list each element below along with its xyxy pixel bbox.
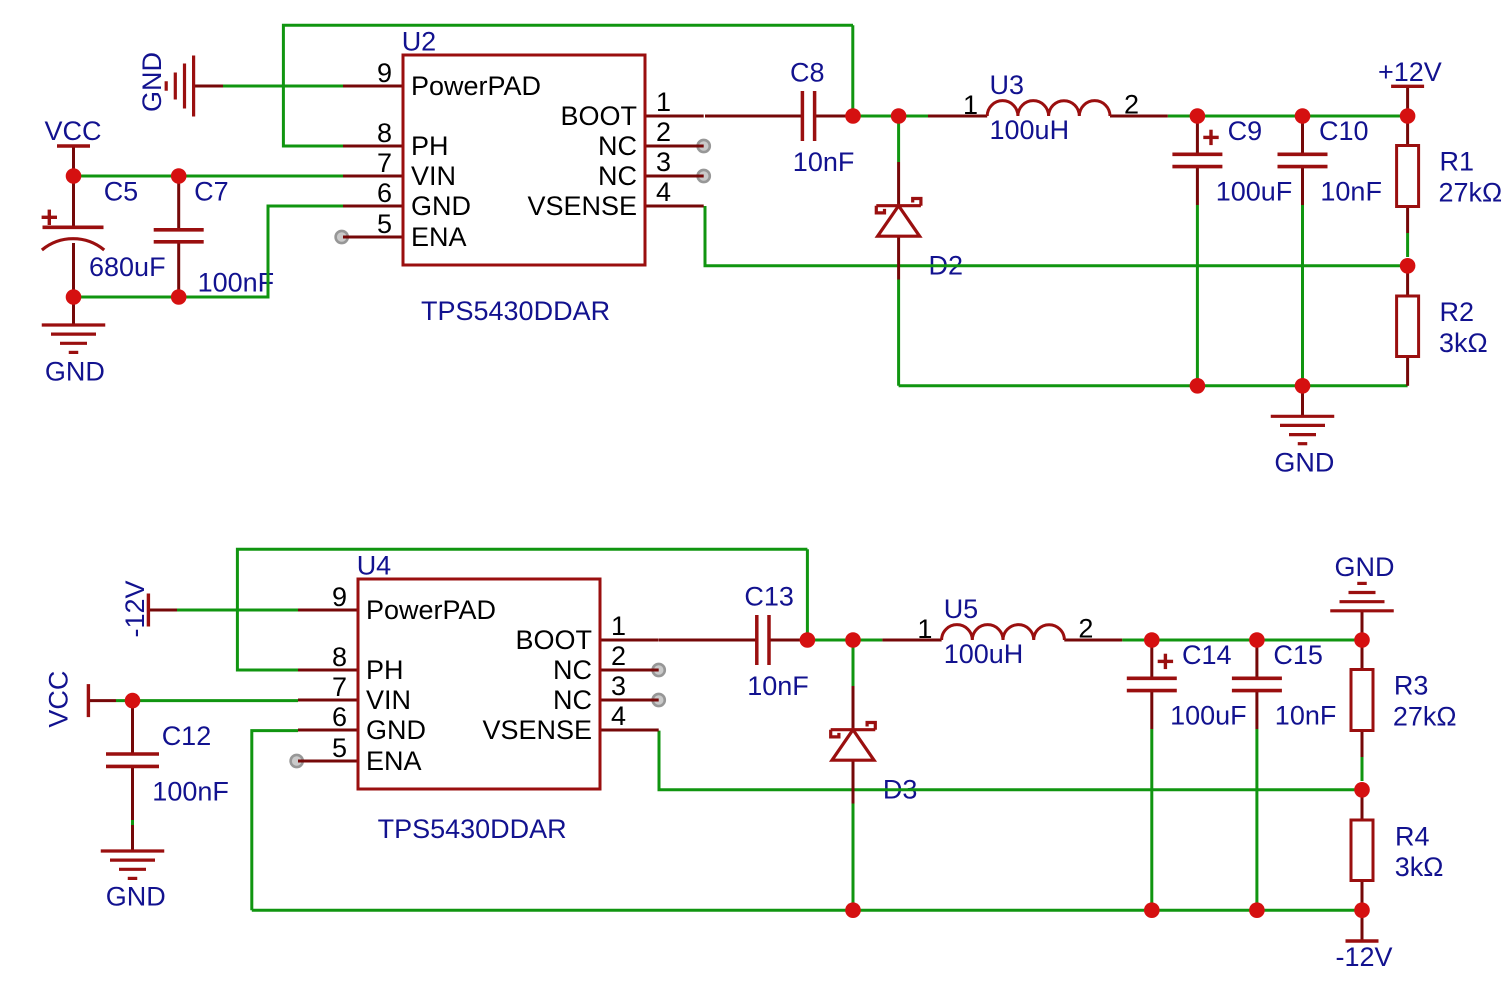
- svg-text:8: 8: [377, 118, 392, 148]
- svg-text:R4: R4: [1395, 822, 1430, 852]
- svg-text:C5: C5: [104, 177, 139, 207]
- svg-text:680uF: 680uF: [89, 252, 166, 282]
- svg-text:6: 6: [332, 702, 347, 732]
- svg-text:VSENSE: VSENSE: [482, 715, 592, 745]
- svg-text:ENA: ENA: [411, 222, 467, 252]
- svg-text:100uH: 100uH: [944, 639, 1024, 669]
- svg-text:PowerPAD: PowerPAD: [411, 71, 541, 101]
- svg-text:3kΩ: 3kΩ: [1439, 328, 1488, 358]
- svg-text:+12V: +12V: [1378, 57, 1442, 87]
- svg-text:GND: GND: [137, 52, 167, 112]
- svg-text:PH: PH: [366, 655, 404, 685]
- svg-text:VIN: VIN: [411, 161, 456, 191]
- svg-text:3: 3: [611, 671, 626, 701]
- svg-text:5: 5: [332, 733, 347, 763]
- svg-text:3: 3: [656, 147, 671, 177]
- svg-text:GND: GND: [1335, 552, 1395, 582]
- svg-text:2: 2: [656, 117, 671, 147]
- svg-text:100nF: 100nF: [198, 267, 275, 297]
- svg-text:100uF: 100uF: [1216, 177, 1293, 207]
- svg-text:1: 1: [656, 87, 671, 117]
- svg-text:C8: C8: [790, 58, 825, 88]
- svg-text:VSENSE: VSENSE: [527, 191, 637, 221]
- svg-text:U5: U5: [944, 594, 979, 624]
- svg-text:R1: R1: [1440, 147, 1475, 177]
- svg-text:BOOT: BOOT: [560, 101, 637, 131]
- svg-text:C13: C13: [744, 582, 794, 612]
- svg-text:6: 6: [377, 178, 392, 208]
- svg-text:R2: R2: [1440, 297, 1475, 327]
- svg-text:GND: GND: [411, 191, 471, 221]
- svg-text:5: 5: [377, 209, 392, 239]
- svg-text:100uH: 100uH: [990, 115, 1070, 145]
- svg-text:9: 9: [377, 58, 392, 88]
- svg-text:7: 7: [377, 148, 392, 178]
- svg-text:PowerPAD: PowerPAD: [366, 595, 496, 625]
- svg-text:C7: C7: [194, 177, 229, 207]
- svg-text:VCC: VCC: [44, 671, 74, 728]
- svg-text:U4: U4: [357, 551, 392, 581]
- svg-text:9: 9: [332, 582, 347, 612]
- svg-text:NC: NC: [598, 161, 637, 191]
- svg-text:27kΩ: 27kΩ: [1439, 178, 1503, 208]
- svg-text:100nF: 100nF: [152, 776, 229, 806]
- svg-text:-12V: -12V: [1336, 942, 1393, 972]
- svg-text:BOOT: BOOT: [515, 625, 592, 655]
- svg-text:10nF: 10nF: [747, 671, 809, 701]
- svg-text:4: 4: [611, 701, 626, 731]
- svg-text:100uF: 100uF: [1170, 701, 1247, 731]
- svg-text:TPS5430DDAR: TPS5430DDAR: [421, 296, 610, 326]
- svg-text:U2: U2: [402, 27, 437, 57]
- svg-text:VIN: VIN: [366, 685, 411, 715]
- svg-text:10nF: 10nF: [793, 147, 855, 177]
- svg-text:NC: NC: [553, 685, 592, 715]
- svg-text:GND: GND: [45, 357, 105, 387]
- svg-text:1: 1: [611, 611, 626, 641]
- svg-text:C9: C9: [1228, 116, 1263, 146]
- svg-text:2: 2: [611, 641, 626, 671]
- svg-text:10nF: 10nF: [1320, 177, 1382, 207]
- svg-text:4: 4: [656, 177, 671, 207]
- svg-text:U3: U3: [990, 70, 1025, 100]
- svg-text:C15: C15: [1273, 640, 1323, 670]
- svg-text:C14: C14: [1182, 640, 1232, 670]
- svg-text:GND: GND: [366, 715, 426, 745]
- svg-text:GND: GND: [1274, 448, 1334, 478]
- svg-text:7: 7: [332, 672, 347, 702]
- svg-text:-12V: -12V: [120, 580, 150, 637]
- svg-text:R3: R3: [1394, 671, 1429, 701]
- svg-text:C12: C12: [162, 721, 212, 751]
- svg-text:27kΩ: 27kΩ: [1393, 702, 1457, 732]
- svg-text:8: 8: [332, 642, 347, 672]
- svg-text:10nF: 10nF: [1275, 701, 1337, 731]
- svg-text:NC: NC: [553, 655, 592, 685]
- svg-text:TPS5430DDAR: TPS5430DDAR: [378, 814, 567, 844]
- svg-text:PH: PH: [411, 131, 449, 161]
- svg-text:GND: GND: [106, 882, 166, 912]
- svg-text:3kΩ: 3kΩ: [1395, 852, 1444, 882]
- svg-text:ENA: ENA: [366, 746, 422, 776]
- svg-text:C10: C10: [1319, 116, 1369, 146]
- svg-text:NC: NC: [598, 131, 637, 161]
- svg-text:VCC: VCC: [45, 116, 102, 146]
